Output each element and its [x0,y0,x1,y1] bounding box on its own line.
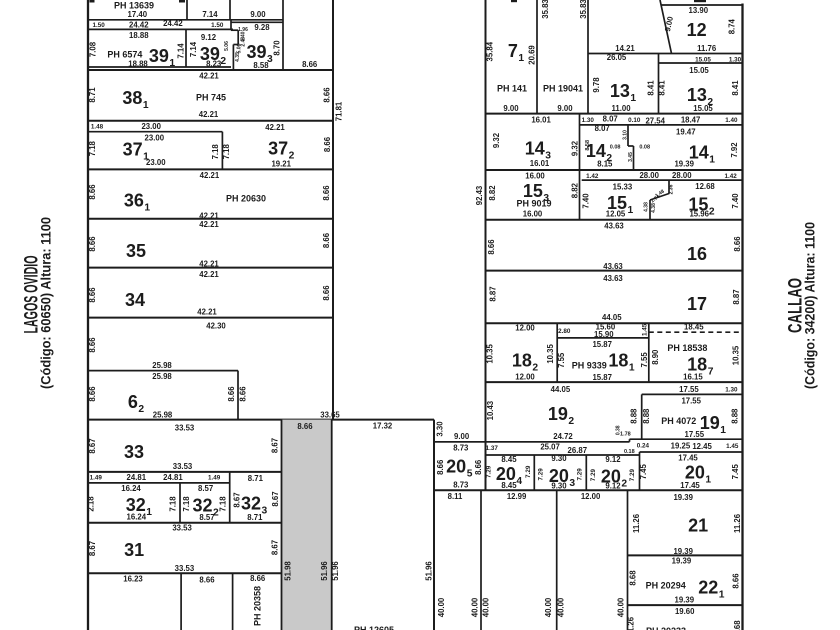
svg-text:15.96: 15.96 [689,210,709,219]
svg-text:35.83: 35.83 [541,0,550,19]
svg-text:9.30: 9.30 [551,482,567,491]
svg-text:31: 31 [124,540,144,560]
svg-text:8.15: 8.15 [597,160,613,169]
svg-text:8.66: 8.66 [322,87,331,103]
svg-text:40.00: 40.00 [471,597,480,617]
svg-text:7.40: 7.40 [731,193,740,209]
svg-text:71.81: 71.81 [335,101,344,121]
svg-text:8.66: 8.66 [88,337,97,353]
parcel 36_1 PH 20630 [88,171,333,220]
svg-text:44.05: 44.05 [602,313,622,322]
svg-text:11.26: 11.26 [632,513,641,533]
svg-text:1.40: 1.40 [725,117,738,124]
svg-text:7.14: 7.14 [202,10,218,19]
svg-text:19.21: 19.21 [271,159,291,168]
strip parcel above 6_2 [88,337,238,371]
parcel 34 [88,270,333,331]
svg-text:8.68: 8.68 [733,620,742,630]
svg-text:1.42: 1.42 [724,173,737,180]
svg-text:15.05: 15.05 [693,104,713,113]
parcel 18_7 PH 18538 [486,332,743,382]
svg-text:24.81: 24.81 [163,473,183,482]
svg-text:0.08: 0.08 [639,144,650,150]
svg-text:25.98: 25.98 [153,411,173,420]
svg-text:8.66: 8.66 [250,574,266,583]
svg-text:11.00: 11.00 [611,104,631,113]
svg-text:24.42: 24.42 [163,19,183,28]
svg-text:15.05: 15.05 [689,66,709,75]
svg-text:16.01: 16.01 [530,159,550,168]
svg-text:1.42: 1.42 [586,173,599,180]
svg-text:1.50: 1.50 [92,22,105,29]
east block boundary [741,4,743,630]
svg-text:42.21: 42.21 [197,307,217,316]
svg-text:1.37: 1.37 [486,445,499,452]
street label LAGOS OVIDIO [21,217,53,389]
svg-text:1.78: 1.78 [620,431,631,437]
svg-text:15.87: 15.87 [592,340,612,349]
parcel 17 [486,274,743,323]
svg-text:19.39: 19.39 [673,493,693,502]
parcel 20_5 [434,421,630,490]
svg-text:7.45: 7.45 [639,464,648,480]
svg-text:PH 141: PH 141 [497,84,527,94]
svg-text:8.88: 8.88 [730,408,739,424]
svg-text:PH 4072: PH 4072 [661,416,696,426]
svg-text:12.99: 12.99 [507,492,527,501]
svg-text:12.45: 12.45 [692,442,712,451]
svg-text:PH 20233: PH 20233 [646,626,686,630]
svg-text:19.39: 19.39 [675,595,695,604]
svg-text:1.30: 1.30 [582,117,595,124]
svg-text:7.18: 7.18 [169,496,178,512]
parcel 19_2 [486,385,631,441]
svg-text:8.45: 8.45 [501,481,517,490]
svg-text:35: 35 [126,241,146,261]
svg-text:8.23: 8.23 [206,59,222,68]
svg-text:35.83: 35.83 [579,0,588,19]
parcel 20_4 [486,455,640,490]
svg-text:19.60: 19.60 [675,607,695,616]
svg-text:9.78: 9.78 [592,77,601,93]
parcel 39_2 [186,20,231,69]
svg-text:11.76: 11.76 [697,44,717,53]
parcel 37_2 [88,136,333,169]
svg-text:7.29: 7.29 [577,468,584,481]
svg-text:44.05: 44.05 [551,385,571,394]
long south boundary of left column [88,411,434,431]
svg-text:8.74: 8.74 [728,18,737,34]
svg-text:42.21: 42.21 [200,171,220,180]
svg-text:8.07: 8.07 [595,124,610,133]
svg-text:1.45: 1.45 [726,443,739,450]
svg-text:7.92: 7.92 [730,142,739,158]
svg-text:8.67: 8.67 [271,491,280,506]
svg-text:33.53: 33.53 [173,462,193,471]
svg-text:16.15: 16.15 [683,372,703,381]
svg-text:8.67: 8.67 [88,541,97,556]
svg-text:51.96: 51.96 [320,561,329,581]
svg-text:PH 9019: PH 9019 [516,199,551,209]
svg-text:8.71: 8.71 [247,513,263,522]
svg-text:13.90: 13.90 [689,6,709,15]
parcel 22_1 PH 20294 [628,556,743,605]
svg-text:7.14: 7.14 [176,43,185,59]
svg-text:PH 20630: PH 20630 [226,194,266,204]
svg-text:7.18: 7.18 [88,140,97,156]
svg-text:19.47: 19.47 [676,127,696,136]
parcel 31 [88,523,282,573]
svg-text:8.07: 8.07 [603,115,618,124]
svg-text:8.57: 8.57 [199,513,214,522]
svg-text:8.66: 8.66 [88,236,97,252]
parcel 38_1 PH 745 [88,71,344,121]
svg-text:1.45: 1.45 [641,323,648,336]
svg-text:25.98: 25.98 [152,372,172,381]
svg-text:8.68: 8.68 [629,570,638,586]
parcel 20_2 [590,452,640,491]
svg-text:5.06: 5.06 [237,43,243,53]
svg-text:1.50: 1.50 [211,22,224,29]
svg-text:23.00: 23.00 [145,133,165,142]
svg-text:8.66: 8.66 [88,287,97,303]
svg-text:8.66: 8.66 [323,136,332,152]
svg-text:10.43: 10.43 [486,400,495,420]
svg-text:0.08: 0.08 [610,144,621,150]
street label CALLAO [785,222,817,389]
svg-text:14.21: 14.21 [615,44,635,53]
svg-text:8.90: 8.90 [651,349,660,365]
svg-text:17.55: 17.55 [685,430,705,439]
svg-text:8.66: 8.66 [88,386,97,402]
svg-text:24.72: 24.72 [553,432,573,441]
svg-text:8.71: 8.71 [248,474,264,483]
svg-text:4.35: 4.35 [235,52,241,62]
svg-text:7.29: 7.29 [486,465,493,478]
svg-text:8.66: 8.66 [322,285,331,301]
svg-text:40.00: 40.00 [482,597,491,617]
svg-text:40.00: 40.00 [437,597,446,617]
parcel 6_2 [88,371,248,420]
svg-text:17.45: 17.45 [678,454,698,463]
svg-text:9.12: 9.12 [201,33,217,42]
svg-text:23.00: 23.00 [141,122,161,131]
svg-text:43.63: 43.63 [603,274,623,283]
svg-text:33.65: 33.65 [320,411,340,420]
svg-text:8.82: 8.82 [488,185,497,201]
parcel 32_1 [86,472,229,523]
svg-text:7.29: 7.29 [629,468,636,481]
svg-text:33.53: 33.53 [172,523,192,532]
svg-text:40.00: 40.00 [556,597,565,617]
svg-text:16.00: 16.00 [523,210,543,219]
svg-text:9.00: 9.00 [454,432,470,441]
svg-text:7.08: 7.08 [88,41,97,57]
svg-text:24.81: 24.81 [127,473,147,482]
parcel 16 [486,222,743,272]
parcel 15_2 [475,182,742,220]
svg-text:2.80: 2.80 [558,328,571,335]
svg-text:33.53: 33.53 [175,424,195,433]
svg-text:42.30: 42.30 [206,322,226,331]
svg-text:8.82: 8.82 [571,182,580,198]
svg-text:16.24: 16.24 [121,484,141,493]
svg-text:18.88: 18.88 [128,59,148,68]
svg-text:1.48: 1.48 [91,124,104,131]
svg-text:26.05: 26.05 [607,53,627,62]
south row boundary [434,489,743,491]
dimension row above 20 parcels [486,442,739,455]
svg-text:8.73: 8.73 [453,481,469,490]
svg-text:3.10: 3.10 [623,130,629,140]
svg-text:8.66: 8.66 [487,239,496,255]
svg-text:12.00: 12.00 [515,323,535,332]
parcel 7_1 PH 141 [485,0,537,114]
svg-text:PH 19041: PH 19041 [543,84,583,94]
svg-text:7.55: 7.55 [557,352,566,368]
svg-text:7.45: 7.45 [731,464,740,480]
parcel 13_2 [659,57,743,114]
svg-text:8.66: 8.66 [322,232,331,248]
svg-text:11.26: 11.26 [733,513,742,533]
parcel PH 12605 (cut) [354,625,394,630]
parcel 18_1 PH 9339 [557,323,649,382]
parcel 20_3 [537,454,586,491]
svg-text:PH 20358: PH 20358 [253,586,263,626]
boundary x=434 [433,420,435,630]
svg-text:28.00: 28.00 [639,171,659,180]
svg-text:4.38: 4.38 [651,203,657,213]
svg-text:35.84: 35.84 [485,41,494,61]
parcel 12 [588,0,743,54]
west block boundary [87,0,89,630]
svg-text:40.00: 40.00 [544,597,553,617]
svg-text:9.30: 9.30 [551,454,567,463]
svg-text:7.55: 7.55 [640,352,649,368]
svg-text:33: 33 [124,442,144,462]
svg-text:0.18: 0.18 [624,449,635,455]
svg-text:8.41: 8.41 [657,80,666,96]
svg-text:1.49: 1.49 [90,475,103,482]
svg-text:8.66: 8.66 [733,236,742,252]
svg-text:15.33: 15.33 [613,182,633,191]
bottom middle tall parcels [425,490,628,630]
svg-text:42.21: 42.21 [265,123,285,132]
svg-text:8.58: 8.58 [253,61,269,70]
svg-text:(Código: 60650) Altura: 1100: (Código: 60650) Altura: 1100 [38,217,54,389]
svg-text:16.01: 16.01 [531,116,551,125]
svg-text:9.00: 9.00 [557,104,573,113]
svg-text:42.21: 42.21 [199,71,219,80]
svg-text:17: 17 [687,294,707,314]
svg-text:PH 745: PH 745 [196,93,226,103]
svg-text:9.12: 9.12 [605,482,621,491]
svg-text:26.87: 26.87 [568,446,588,455]
svg-text:9.32: 9.32 [492,132,501,148]
svg-text:9.00: 9.00 [503,104,519,113]
svg-text:12.00: 12.00 [581,492,601,501]
svg-text:28.00: 28.00 [672,171,692,180]
svg-text:15.87: 15.87 [592,373,612,382]
svg-text:8.66: 8.66 [227,386,236,402]
svg-text:8.87: 8.87 [488,286,497,301]
svg-text:92.43: 92.43 [475,185,484,205]
parcel 35 [88,220,333,268]
svg-text:8.67: 8.67 [88,438,97,453]
svg-text:3.45: 3.45 [628,152,634,162]
svg-text:PH 6574: PH 6574 [107,50,142,60]
parcel 15_3 PH 9019 [488,171,737,219]
parcel 14_2 [580,124,743,170]
svg-text:42.21: 42.21 [199,270,219,279]
svg-text:9.12: 9.12 [605,455,621,464]
svg-text:0.10: 0.10 [628,117,641,124]
svg-text:7.18: 7.18 [222,144,231,160]
bottom-right strip (cut) [627,607,742,630]
svg-text:12.00: 12.00 [515,372,535,381]
svg-text:8.66: 8.66 [302,60,318,69]
svg-text:8.73: 8.73 [453,443,469,452]
parcel 39_3 [231,22,283,70]
svg-text:7.18: 7.18 [211,144,220,160]
svg-text:18.47: 18.47 [681,116,701,125]
svg-text:8.41: 8.41 [646,80,655,96]
svg-text:40.00: 40.00 [617,597,626,617]
svg-text:42.21: 42.21 [199,220,219,229]
svg-text:19.39: 19.39 [672,556,692,565]
svg-text:8.66: 8.66 [474,459,483,475]
svg-text:8.66: 8.66 [322,185,331,201]
gray parcel strip [282,420,341,630]
svg-text:8.66: 8.66 [297,422,313,431]
svg-text:8.66: 8.66 [238,386,247,402]
parcel 19_1 PH 4072 [434,385,743,442]
svg-text:23.00: 23.00 [146,158,166,167]
svg-text:19.25: 19.25 [671,442,691,451]
svg-text:20.69: 20.69 [528,45,537,65]
svg-text:19.39: 19.39 [674,160,694,169]
parcel 33 [88,424,282,472]
svg-text:9.28: 9.28 [254,23,270,32]
svg-text:16.24: 16.24 [127,513,147,522]
svg-text:8.45: 8.45 [501,455,517,464]
parcel 15_1 [582,180,743,220]
parcel 39_1 [88,29,186,69]
svg-text:7.18: 7.18 [218,496,227,512]
svg-text:2.36: 2.36 [669,184,675,194]
svg-text:18.88: 18.88 [129,31,149,40]
svg-text:17.40: 17.40 [128,10,148,19]
svg-text:(Código: 34200) Altura: 1100: (Código: 34200) Altura: 1100 [802,222,818,389]
svg-text:8.70: 8.70 [272,40,281,56]
svg-text:PH 12605: PH 12605 [354,625,394,630]
left column east boundary [332,0,334,420]
svg-text:18.45: 18.45 [684,323,704,332]
svg-text:8.87: 8.87 [732,289,741,304]
svg-text:8.66: 8.66 [88,184,97,200]
svg-text:7.40: 7.40 [582,193,591,209]
svg-text:7.14: 7.14 [189,41,198,57]
svg-text:0.24: 0.24 [637,442,650,449]
svg-text:34: 34 [125,290,145,310]
right column west boundary [485,0,487,490]
svg-text:8.66: 8.66 [199,575,215,584]
svg-text:2.18: 2.18 [86,496,95,512]
parcel 18_2 [485,323,704,383]
parcel 13_1 [592,44,667,114]
svg-text:8.41: 8.41 [731,80,740,96]
svg-text:8.66: 8.66 [732,573,741,589]
svg-text:17.55: 17.55 [681,396,701,405]
svg-text:8.11: 8.11 [448,492,463,501]
svg-text:PH 9339: PH 9339 [572,361,607,371]
svg-text:1.49: 1.49 [208,475,221,482]
svg-text:51.96: 51.96 [425,561,434,581]
svg-text:7.29: 7.29 [525,465,532,478]
svg-text:12.05: 12.05 [606,210,626,219]
svg-text:21: 21 [688,516,708,536]
svg-text:25.98: 25.98 [152,361,172,370]
svg-text:8.67: 8.67 [271,540,280,555]
svg-text:8.88: 8.88 [630,408,639,424]
parcel 32_3 [88,474,282,523]
svg-text:25.07: 25.07 [540,443,560,452]
svg-text:8.66: 8.66 [436,459,445,475]
row boundary 7/14 [486,113,743,115]
svg-text:17.32: 17.32 [373,422,393,431]
svg-text:17.45: 17.45 [680,481,700,490]
svg-text:7.29: 7.29 [537,468,544,481]
svg-text:16: 16 [687,244,707,264]
svg-text:PH 18538: PH 18538 [667,343,707,353]
parcel PH 13639 [88,0,283,70]
svg-text:24.42: 24.42 [129,20,149,29]
svg-text:42.21: 42.21 [199,110,219,119]
svg-text:8.88: 8.88 [642,408,651,424]
boundary ladder between 39_2 and 39_3 [231,27,248,70]
svg-text:17.55: 17.55 [679,385,699,394]
svg-text:8.71: 8.71 [88,87,97,103]
svg-text:43.63: 43.63 [604,222,624,231]
parcel 14_1 [486,127,743,170]
svg-text:3.30: 3.30 [436,421,445,437]
parcel PH 19041 [541,0,588,114]
dimension row 24.42 [88,19,233,29]
svg-text:9.00: 9.00 [250,10,266,19]
svg-text:12.68: 12.68 [695,182,715,191]
svg-text:10.35: 10.35 [546,343,555,363]
parcel 21 [628,493,743,556]
svg-text:11.26: 11.26 [627,616,636,630]
svg-text:16.00: 16.00 [525,172,545,181]
svg-text:10.35: 10.35 [485,343,494,363]
svg-text:16.23: 16.23 [123,575,143,584]
bottom strip parcels [123,573,266,630]
svg-text:4.38: 4.38 [644,202,650,212]
svg-text:51.98: 51.98 [284,561,293,581]
svg-text:5.06: 5.06 [224,41,230,51]
corner strip 8.66 [88,60,333,70]
parcel 37_1 [88,122,285,169]
svg-text:12: 12 [687,20,707,40]
parcel 14_3 [492,114,738,220]
svg-text:8.57: 8.57 [198,484,213,493]
parcel 20_1 [639,452,743,490]
svg-text:8.67: 8.67 [270,438,279,453]
svg-text:10.35: 10.35 [732,345,741,365]
svg-text:7.29: 7.29 [590,468,597,481]
svg-text:51.96: 51.96 [331,561,340,581]
